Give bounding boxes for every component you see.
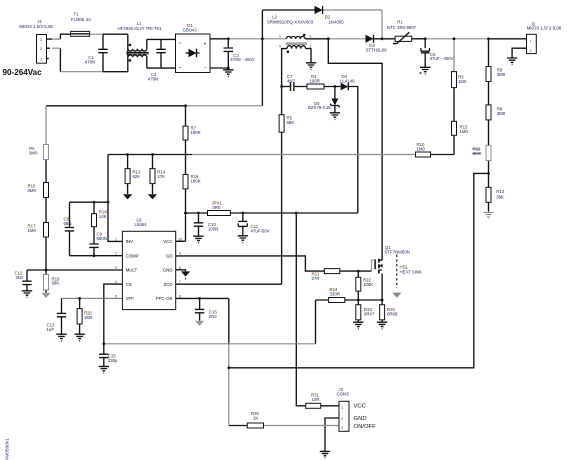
svg-text:STF7NM50N: STF7NM50N xyxy=(385,250,410,255)
svg-text:10R: 10R xyxy=(312,397,320,402)
svg-text:1M0: 1M0 xyxy=(28,228,37,233)
svg-text:1M0: 1M0 xyxy=(417,147,426,152)
svg-text:100R: 100R xyxy=(310,79,320,84)
svg-text:1M0: 1M0 xyxy=(460,129,469,134)
svg-text:MKDS 1,5/ 2-5,08: MKDS 1,5/ 2-5,08 xyxy=(527,26,562,31)
svg-text:NTC 3R0-9007: NTC 3R0-9007 xyxy=(387,25,417,30)
svg-text:HF2826-312Y TRI-T01: HF2826-312Y TRI-T01 xyxy=(117,26,162,31)
svg-text:COMP: COMP xyxy=(126,253,139,258)
svg-text:2: 2 xyxy=(309,43,311,48)
svg-text:2N2: 2N2 xyxy=(16,275,25,280)
svg-text:−: − xyxy=(204,65,207,71)
svg-text:+: + xyxy=(204,42,207,48)
svg-text:4: 4 xyxy=(279,43,282,48)
svg-text:1uF: 1uF xyxy=(47,327,55,332)
svg-text:90-264Vac: 90-264Vac xyxy=(3,68,43,77)
svg-text:3M0: 3M0 xyxy=(29,151,38,156)
svg-text:100K: 100K xyxy=(363,282,373,287)
svg-text:CON3: CON3 xyxy=(337,392,350,397)
svg-text:1K: 1K xyxy=(253,416,258,421)
svg-text:3M0: 3M0 xyxy=(497,72,506,77)
svg-text:470N - 400V: 470N - 400V xyxy=(230,57,254,62)
svg-text:180K: 180K xyxy=(191,178,201,183)
svg-text:R1: R1 xyxy=(397,20,403,25)
svg-text:MKDS 1,5/3-5,08: MKDS 1,5/3-5,08 xyxy=(19,24,53,29)
svg-text:39K: 39K xyxy=(496,195,504,200)
svg-text:2: 2 xyxy=(341,416,343,421)
svg-text:VFF: VFF xyxy=(126,296,135,301)
svg-text:3: 3 xyxy=(40,37,42,42)
svg-text:2: 2 xyxy=(115,251,117,256)
svg-text:470N: 470N xyxy=(85,60,95,65)
svg-text:470N: 470N xyxy=(148,77,158,82)
svg-text:VCC: VCC xyxy=(163,239,172,244)
svg-text:BZX79-C18: BZX79-C18 xyxy=(308,105,331,110)
svg-text:VCC: VCC xyxy=(354,404,367,410)
svg-text:2: 2 xyxy=(40,46,42,51)
svg-text:10: 10 xyxy=(178,236,183,241)
svg-text:27K: 27K xyxy=(157,174,165,179)
svg-text:100N: 100N xyxy=(208,227,218,232)
svg-text:10K: 10K xyxy=(99,214,107,219)
svg-text:~: ~ xyxy=(179,41,182,47)
svg-text:68N: 68N xyxy=(64,221,72,226)
svg-text:1: 1 xyxy=(341,405,343,410)
svg-text:0R68: 0R68 xyxy=(387,312,398,317)
svg-text:FU30E 4A: FU30E 4A xyxy=(71,17,91,22)
svg-text:R13: R13 xyxy=(496,189,505,194)
svg-text:2N2: 2N2 xyxy=(209,314,218,319)
svg-text:~: ~ xyxy=(179,66,182,72)
svg-text:330p: 330p xyxy=(108,358,118,363)
svg-text:L6564: L6564 xyxy=(135,222,148,227)
svg-text:STTH2L06: STTH2L06 xyxy=(365,48,387,53)
svg-text:3: 3 xyxy=(309,33,311,38)
svg-text:330R: 330R xyxy=(330,292,340,297)
svg-text:6: 6 xyxy=(179,294,181,299)
svg-text:3M0: 3M0 xyxy=(28,188,37,193)
svg-text:68K: 68K xyxy=(287,120,295,125)
svg-text:3M0: 3M0 xyxy=(497,111,506,116)
svg-text:3: 3 xyxy=(115,265,117,270)
svg-text:CS: CS xyxy=(126,282,132,287)
svg-text:180K: 180K xyxy=(191,130,201,135)
svg-text:9: 9 xyxy=(179,251,181,256)
svg-text:7: 7 xyxy=(179,279,181,284)
svg-text:680N: 680N xyxy=(97,236,107,241)
svg-text:5: 5 xyxy=(115,294,117,299)
svg-text:AM0590v1: AM0590v1 xyxy=(5,438,11,460)
svg-text:SRW0910PQ-XXXV003: SRW0910PQ-XXXV003 xyxy=(267,20,314,25)
svg-text:GBU4J: GBU4J xyxy=(182,27,196,32)
svg-text:1: 1 xyxy=(279,33,281,38)
svg-text:47uF - 400V: 47uF - 400V xyxy=(430,56,454,61)
svg-text:INV: INV xyxy=(126,239,133,244)
svg-text:47uF-50V: 47uF-50V xyxy=(251,229,270,234)
svg-text:1N4005: 1N4005 xyxy=(328,20,344,25)
svg-text:PFC-OK: PFC-OK xyxy=(156,296,173,301)
svg-text:39K: 39K xyxy=(52,280,60,285)
svg-text:1: 1 xyxy=(530,39,532,44)
svg-text:3: 3 xyxy=(341,425,343,430)
svg-text:1: 1 xyxy=(115,236,117,241)
svg-text:0R47: 0R47 xyxy=(364,312,375,317)
svg-text:1: 1 xyxy=(40,57,42,62)
svg-text:ZCD: ZCD xyxy=(163,282,172,287)
svg-text:GND: GND xyxy=(354,416,367,422)
svg-text:F1: F1 xyxy=(73,12,79,17)
svg-text:HEAT SINK: HEAT SINK xyxy=(400,269,423,274)
svg-text:1M0: 1M0 xyxy=(84,315,93,320)
svg-text:GND: GND xyxy=(163,268,173,273)
svg-text:8: 8 xyxy=(179,265,181,270)
svg-text:2: 2 xyxy=(530,48,532,53)
svg-text:4N7: 4N7 xyxy=(287,79,296,84)
svg-text:0R0: 0R0 xyxy=(213,205,222,210)
svg-text:LL4148: LL4148 xyxy=(340,79,355,84)
svg-text:62K: 62K xyxy=(132,174,140,179)
svg-text:MULT: MULT xyxy=(126,268,138,273)
svg-text:GD: GD xyxy=(166,253,173,258)
svg-text:ON/OFF: ON/OFF xyxy=(354,424,377,430)
svg-text:27R: 27R xyxy=(312,276,320,281)
svg-text:1M0: 1M0 xyxy=(458,79,467,84)
